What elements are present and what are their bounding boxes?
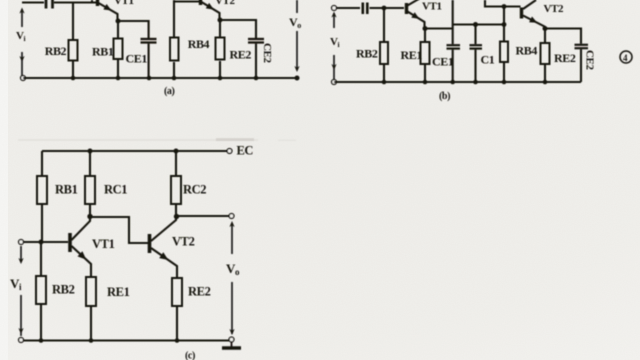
capacitor CE2 (a) xyxy=(248,38,264,40)
node RB2 top (b) xyxy=(382,6,387,11)
junction dots rail (a) xyxy=(71,76,259,81)
svg-text:RE1: RE1 xyxy=(107,285,130,299)
svg-text:VT1: VT1 xyxy=(92,237,115,251)
wire Vo bottom arrow down (c) xyxy=(231,282,233,334)
wire Vi+ arrow (b) xyxy=(333,15,335,28)
svg-text:VT2: VT2 xyxy=(215,0,235,7)
wire Vo top (a) xyxy=(296,0,298,13)
wire to CE1 (a) xyxy=(118,21,149,38)
node emitter VT2 (a) xyxy=(218,18,223,23)
node C1 top (b) xyxy=(473,22,478,27)
resistor RE1 (c) xyxy=(86,277,96,306)
wire Vo arrow up (c) xyxy=(231,224,233,254)
terminal output (c) xyxy=(229,214,234,219)
wire Vi arrow (c) xyxy=(20,246,22,262)
svg-text:CE1: CE1 xyxy=(432,55,454,69)
svg-text:RB4: RB4 xyxy=(516,44,538,58)
node emitter VT1 (b) xyxy=(423,26,428,31)
capacitor C input (b) xyxy=(363,3,368,15)
svg-text:C1: C1 xyxy=(481,53,495,67)
svg-text:RC1: RC1 xyxy=(104,183,127,197)
svg-text:RE2: RE2 xyxy=(554,51,576,65)
wire emitter VT1 (a) xyxy=(99,3,118,21)
svg-text:RE2: RE2 xyxy=(188,285,211,299)
transistor VT2 (c) base bar xyxy=(148,234,152,253)
resistor RC1 (c) xyxy=(89,151,91,176)
svg-text:VT1: VT1 xyxy=(422,1,442,13)
svg-text:CE1: CE1 xyxy=(126,52,148,66)
svg-text:RE1: RE1 xyxy=(401,48,423,62)
resistor RB1 (c) xyxy=(41,151,43,176)
node emitter VT1 (a) xyxy=(116,19,121,24)
terminal output bottom (c) xyxy=(229,337,234,342)
answer mark 4 circled xyxy=(620,51,632,63)
junction dots rail (c) xyxy=(39,338,180,343)
wire collector lead VT1 (c) xyxy=(72,217,91,240)
wire collector VT1 (b) xyxy=(408,0,420,6)
svg-text:RE2: RE2 xyxy=(230,48,252,62)
terminal input bottom (a) xyxy=(21,76,26,81)
svg-text:(a): (a) xyxy=(164,86,175,97)
transistor VT2 (b) base bar xyxy=(520,8,523,19)
svg-text:CE2: CE2 xyxy=(584,50,596,70)
node base divider (c) xyxy=(39,240,44,245)
junction dots rail (b) xyxy=(382,80,548,85)
resistor RE2 (a) xyxy=(219,20,221,37)
svg-text:RB2: RB2 xyxy=(52,283,75,297)
wire base VT2 from RB4 top (a) xyxy=(175,0,199,2)
transistor VT2 (a) base bar xyxy=(199,0,202,5)
node RB4 top (b) xyxy=(502,4,507,9)
wire Vi- arrow (b) xyxy=(333,55,335,80)
terminal input (c) xyxy=(19,240,24,245)
node Vi+ arrow (a) xyxy=(21,12,23,27)
node Vo rail (a) xyxy=(295,76,300,81)
wire cap to base VT1 (a) xyxy=(54,1,96,3)
wire emitter VT1 (c) xyxy=(72,246,92,277)
resistor RB2 (a) xyxy=(69,40,78,61)
terminal EC (c) xyxy=(227,149,232,154)
ground symbol (c) xyxy=(231,342,233,347)
svg-text:RB1: RB1 xyxy=(92,45,114,59)
wire RB2 top lead (a) xyxy=(72,3,74,41)
svg-text:VT1: VT1 xyxy=(114,0,134,7)
svg-text:EC: EC xyxy=(237,144,254,158)
resistor RB4 (b) xyxy=(503,7,505,43)
wire emitter VT1 (b) xyxy=(408,12,425,29)
wire emitter VT2 (c) xyxy=(151,248,177,278)
wire collector lead VT2 (c) xyxy=(151,217,176,241)
wire Vo arrow (a) xyxy=(296,31,298,70)
wire emitter VT2 (b) xyxy=(523,16,545,29)
wire node row (b) xyxy=(453,23,504,25)
capacitor CE1 (b) xyxy=(447,44,461,46)
wire collector VT2 (b) xyxy=(523,0,536,9)
wire emitter VT2 (a) xyxy=(202,2,220,20)
faint scan artifact streak xyxy=(18,138,296,141)
node RC2 rail (c) xyxy=(174,149,179,154)
svg-text:VT2: VT2 xyxy=(172,235,195,249)
transistor VT1 (b) base bar xyxy=(405,3,408,14)
svg-text:CE2: CE2 xyxy=(261,43,273,63)
wire Vi- arrow (a) xyxy=(21,52,23,78)
terminal input top (b) xyxy=(332,6,337,11)
node collector VT2 (c) xyxy=(174,214,179,219)
wire collector VT2 to output (c) xyxy=(177,215,229,217)
wire ground rail (c) xyxy=(23,340,229,342)
resistor RB4 (a) xyxy=(170,38,179,61)
wire base VT1 (c) xyxy=(24,241,69,243)
wire supply rail (c) xyxy=(42,150,227,152)
wire input top (a) xyxy=(22,1,44,3)
resistor RE1 (b) xyxy=(424,29,426,43)
wire ground rail (a) xyxy=(23,77,297,79)
wire ground rail (b) xyxy=(334,81,581,83)
wire cap to base VT1 (b) xyxy=(370,7,405,9)
capacitor CE2 (b) xyxy=(575,44,589,46)
wire RB4 from top (a) xyxy=(173,0,175,38)
resistor RB2 (b) xyxy=(383,8,385,42)
svg-text:RB2: RB2 xyxy=(45,44,67,58)
svg-text:(b): (b) xyxy=(439,91,450,102)
svg-text:RB4: RB4 xyxy=(188,37,210,51)
terminal input bottom (c) xyxy=(19,338,24,343)
svg-text:RC2: RC2 xyxy=(183,183,206,197)
terminal input bottom (b) xyxy=(332,80,337,85)
resistor RB2 (c) xyxy=(40,242,42,276)
wire emitter to CE1 (b) xyxy=(425,27,453,29)
resistor RB1 (a) xyxy=(117,21,119,38)
node RC1 rail (c) xyxy=(88,149,93,154)
wire from top at CE1 (b) xyxy=(452,0,454,44)
node collector VT1 (c) xyxy=(87,214,92,219)
node emitter VT2 (b) xyxy=(543,26,548,31)
capacitor CE1 (a) xyxy=(141,38,157,40)
transistor VT1 (a) base bar xyxy=(96,0,99,6)
wire coupling collector VT1 to base VT2 (c) xyxy=(90,217,148,243)
svg-text:VT2: VT2 xyxy=(544,3,564,15)
capacitor C1 (b) xyxy=(474,25,476,45)
resistor RE2 (b) xyxy=(544,29,546,44)
wire to CE2 (a) xyxy=(220,20,256,38)
resistor RC2 (c) xyxy=(175,151,177,176)
transistor VT1 (c) base bar xyxy=(68,233,72,252)
svg-text:RB1: RB1 xyxy=(55,183,78,197)
svg-text:(c): (c) xyxy=(185,351,195,360)
wire RB2 bottom lead (a) xyxy=(72,61,74,79)
wire Vi bottom (c) xyxy=(20,295,22,336)
resistor RE2 (c) xyxy=(172,278,182,306)
wire base VT2 from top (b) xyxy=(485,0,521,7)
capacitor C input (a) xyxy=(46,0,53,9)
stray mark (a) xyxy=(91,0,93,3)
svg-text:RB2: RB2 xyxy=(356,47,378,61)
wire emitter to CE2 (b) xyxy=(545,29,581,44)
wire input (b) xyxy=(337,7,361,9)
